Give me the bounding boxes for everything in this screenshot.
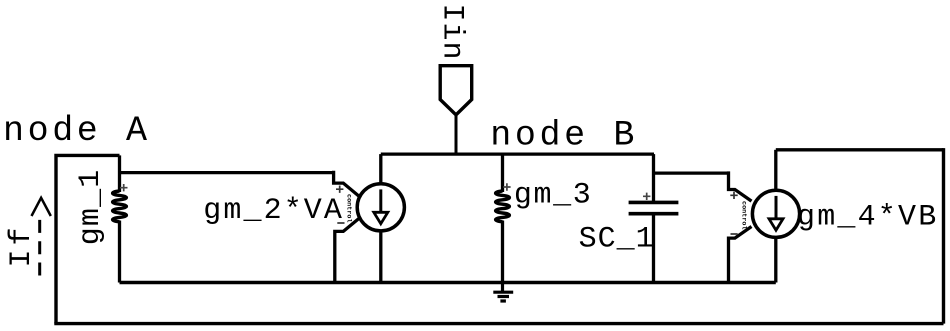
svg-text:node A: node A <box>3 111 151 151</box>
svg-text:If: If <box>5 223 39 267</box>
gm_2 arrow head <box>374 212 388 223</box>
svg-text:SC_1: SC_1 <box>579 222 655 256</box>
gm_4 arrow head <box>769 219 783 230</box>
svg-text:gm_3: gm_3 <box>514 178 592 212</box>
wire: bottom outer rail <box>54 322 943 325</box>
gm_2 control top lead <box>334 171 360 197</box>
port Iin pentagon <box>440 66 472 115</box>
wire: node B down to cap/gm_4 branch <box>652 154 655 202</box>
svg-text:gm_1: gm_1 <box>74 168 108 245</box>
wire: right box top edge <box>776 148 944 151</box>
gm_4 control bottom lead <box>729 227 752 283</box>
wire: gm_3 bottom segment <box>501 221 504 283</box>
plus mark gm_4 control <box>730 192 737 199</box>
gm_2 control bottom lead <box>335 218 360 283</box>
svg-text:control: control <box>740 201 748 230</box>
plus mark gm_2 control <box>336 186 343 193</box>
gm_4 control top lead <box>729 171 752 201</box>
wire: inner ground rail <box>120 281 776 284</box>
arrow If head <box>32 198 51 216</box>
minus mark gm_4 control <box>731 233 738 235</box>
svg-text:Iin: Iin <box>435 4 469 61</box>
current source U: gm_4 circle <box>752 190 799 237</box>
wire: gm_2 top terminal <box>379 154 382 184</box>
svg-text:gm_4*VB: gm_4*VB <box>797 200 938 234</box>
wire: gm_1 bottom segment <box>118 221 121 283</box>
plus mark gm_3 <box>503 183 510 190</box>
wire: branch to gm_4 control top <box>654 171 729 174</box>
ground <box>493 283 513 302</box>
svg-text:control: control <box>345 194 353 223</box>
wire: gm_1 top segment <box>118 155 121 192</box>
svg-text:gm_2*VA: gm_2*VA <box>203 194 344 228</box>
capacitor SC_1 <box>629 202 679 213</box>
wire: gm_3 top segment <box>501 154 504 192</box>
gm_4 arrow stem <box>775 196 778 219</box>
minus mark gm_2 control <box>337 222 344 224</box>
wire: node A horizontal to gm_2 control <box>120 171 334 174</box>
current source U: gm_2 circle <box>357 184 404 231</box>
wire: Iin down to node B <box>455 115 458 154</box>
resistor gm_1 <box>113 191 127 222</box>
wire: gm_2 bottom terminal <box>379 231 382 283</box>
resistor gm_3 <box>496 191 510 222</box>
wire: SC_1 bottom segment <box>652 214 655 283</box>
svg-text:node B: node B <box>490 115 638 155</box>
wire: node A box (left outer vertical + top edge) <box>56 155 120 323</box>
plus mark SC_1 <box>643 193 650 200</box>
wire: gm_4 bottom terminal <box>774 237 777 282</box>
plus mark gm_1 <box>120 184 128 191</box>
wire: gm_4 top terminal <box>774 150 777 190</box>
wire: right outer vertical <box>942 148 945 324</box>
gm_2 arrow stem <box>379 189 382 212</box>
arrow If dashed shaft <box>38 217 41 276</box>
wire: node B rail <box>381 152 654 155</box>
